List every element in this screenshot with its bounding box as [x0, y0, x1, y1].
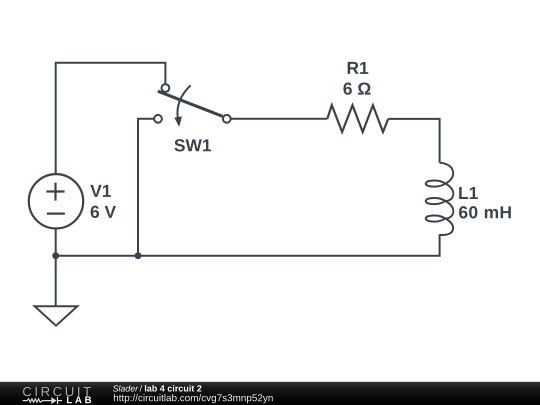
CircuitLab logo: resistor squiggle [23, 399, 52, 402]
CircuitLab logo: LAB [67, 396, 91, 403]
CircuitLab logo: CIRCUIT [23, 387, 91, 396]
wire: V1 top to switch top terminal [56, 63, 166, 175]
value 6 Ohm [343, 82, 370, 94]
caption: lab 4 circuit 2 [145, 385, 202, 392]
resistor R1 [327, 105, 388, 132]
caption: url [114, 394, 273, 403]
switch SW1 lower-left terminal [154, 115, 162, 123]
junction node at switch branch on bottom rail [135, 252, 142, 259]
switch SW1 actuator arc [177, 85, 190, 118]
CircuitLab logo: diode [51, 397, 56, 404]
label SW1 [174, 139, 211, 151]
value 60 mH [459, 206, 511, 218]
caption: Slader [113, 385, 138, 391]
caption: slash [140, 385, 143, 392]
wire: inductor L1 bottom along bottom rail to V1 [56, 234, 440, 255]
junction node at V1/ground on bottom rail [52, 252, 59, 259]
label V1 [90, 185, 111, 197]
voltage source V1 [29, 174, 83, 228]
switch SW1 top terminal [162, 84, 170, 92]
switch SW1 right terminal [223, 115, 231, 123]
wire: switch right terminal to resistor R1 [231, 118, 327, 120]
switch SW1 blade [158, 91, 223, 116]
wire: resistor R1 to inductor L1 top [388, 119, 439, 163]
ground symbol [35, 306, 78, 326]
label L1 [459, 187, 478, 199]
wire: switch lower-left terminal to bottom rail [138, 119, 154, 256]
switch SW1 actuator arrowhead [174, 116, 182, 127]
wire: V1 bottom to ground [55, 228, 57, 306]
label R1 [348, 62, 369, 74]
inductor L1 [426, 163, 454, 235]
value 6 V [91, 206, 116, 218]
